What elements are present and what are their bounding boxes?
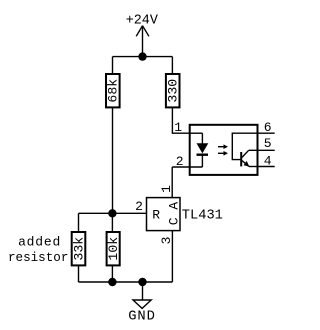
svg-text:4: 4 — [264, 154, 272, 169]
wire resistor 33k to bottom rail — [78, 266, 80, 282]
svg-text:10k: 10k — [106, 237, 121, 261]
junction top node — [138, 52, 146, 60]
junction divider node — [108, 209, 116, 217]
svg-text:2: 2 — [176, 154, 184, 169]
svg-text:330: 330 — [166, 79, 181, 103]
phototransistor Q1 — [241, 150, 257, 166]
TL431 U2 body — [147, 198, 182, 231]
resistor 330 — [166, 74, 181, 107]
svg-text:GND: GND — [128, 309, 156, 324]
resistor 33k — [72, 232, 87, 265]
svg-text:TL431: TL431 — [182, 209, 223, 224]
wire top rail to resistor 68k — [112, 57, 114, 74]
wire opto pin1 internal to LED anode — [190, 132, 203, 134]
pin 4 stub wire — [258, 166, 275, 168]
svg-text:2: 2 — [135, 199, 143, 214]
svg-text:33k: 33k — [72, 237, 87, 261]
wire LED cathode to opto pin 2 — [172, 166, 202, 168]
junction 10k bottom — [108, 278, 116, 286]
svg-text:resistor: resistor — [8, 251, 68, 265]
svg-text:C A: C A — [166, 202, 181, 226]
phototransistor base wire from pin 6 — [232, 133, 257, 159]
wire down-left to resistor 33k — [78, 213, 80, 231]
wire bottom rail — [79, 281, 173, 283]
svg-text:68k: 68k — [106, 79, 121, 103]
svg-text:1: 1 — [159, 185, 174, 193]
svg-text:3: 3 — [159, 237, 174, 245]
power arrow +24V — [136, 26, 149, 37]
LED inside optocoupler — [197, 133, 209, 167]
resistor 10k — [106, 232, 121, 265]
svg-text:5: 5 — [264, 136, 272, 151]
pin 5 stub wire — [258, 149, 275, 151]
light arrows — [218, 144, 228, 155]
wire opto pin 2 down to TL431 cathode pin 1 — [171, 167, 173, 198]
svg-text:1: 1 — [174, 120, 182, 135]
wire top horizontal rail — [113, 56, 173, 58]
resistor 68k — [106, 74, 121, 107]
annotation added resistor — [8, 234, 68, 265]
wire resistor 330 down and right to optocoupler pin 1 — [172, 108, 189, 133]
svg-text:R: R — [152, 208, 160, 223]
wire resistor 68k down to divider node — [112, 108, 114, 213]
wire TL431 anode pin 3 down to bottom rail — [171, 231, 173, 282]
wire divider node down to resistor 10k — [111, 213, 113, 231]
wire from +24V arrow down to top node — [142, 26, 144, 57]
optocoupler U1 body — [190, 125, 258, 175]
junction ground tap — [138, 278, 146, 286]
wire top rail to resistor 330 — [171, 57, 173, 74]
pin 6 stub wire — [258, 132, 275, 134]
ground — [128, 282, 156, 324]
svg-text:added: added — [18, 234, 61, 249]
wire divider node to TL431 reference pin 2 — [79, 212, 147, 214]
wire resistor 10k to bottom rail — [111, 266, 113, 282]
svg-text:6: 6 — [264, 120, 272, 135]
